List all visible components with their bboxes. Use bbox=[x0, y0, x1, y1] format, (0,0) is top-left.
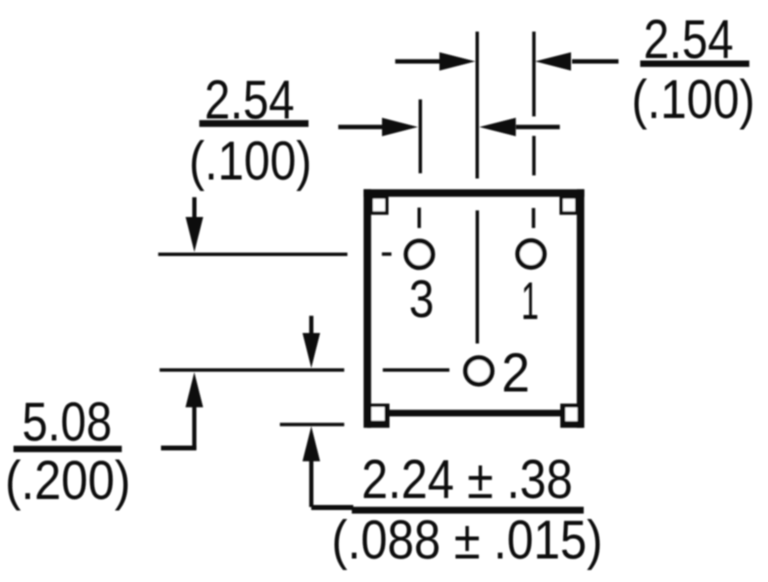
fraction bar bottom center bbox=[352, 507, 584, 514]
package outline bbox=[364, 189, 585, 427]
dimension text (.088 +/- .015) bottom bbox=[332, 508, 603, 570]
dimension arrow second row right bbox=[479, 118, 560, 136]
svg-text:5.08: 5.08 bbox=[22, 391, 112, 453]
extension line pin row left bbox=[158, 252, 391, 256]
arrow down to pin row line bbox=[186, 197, 204, 252]
dimension arrow second row left bbox=[338, 118, 418, 136]
svg-text:3: 3 bbox=[409, 269, 434, 328]
dimension text (.100) top right bbox=[632, 68, 756, 129]
svg-text:2.24 ± .38: 2.24 ± .38 bbox=[362, 448, 573, 510]
dimension text 5.08 bottom left bbox=[22, 391, 112, 453]
dimension text 2.24 +/- .38 bottom bbox=[362, 448, 573, 510]
center line bbox=[476, 32, 480, 344]
svg-text:(.100): (.100) bbox=[189, 130, 312, 191]
pin 1 extension line bbox=[532, 32, 536, 228]
corner mark top-left bbox=[370, 195, 389, 215]
svg-text:1: 1 bbox=[521, 272, 539, 331]
dimension arrow top row left bbox=[395, 52, 475, 70]
arrow down to pin 2 line bbox=[303, 316, 321, 368]
pin 1 bbox=[518, 241, 545, 268]
pin 2 bbox=[465, 358, 492, 385]
arrow up to bottom line with leader to 2.24 bbox=[303, 426, 354, 510]
fraction bar bottom left bbox=[14, 446, 122, 452]
pin 2 label bbox=[502, 343, 530, 404]
corner mark bottom-left bbox=[367, 404, 390, 428]
svg-text:(.200): (.200) bbox=[5, 449, 131, 511]
dimension text 2.54 top right bbox=[644, 8, 734, 70]
fraction bar top left bbox=[199, 120, 308, 127]
dimension text (.200) bottom left bbox=[5, 449, 131, 511]
fraction bar top right bbox=[640, 61, 749, 67]
pin 3 bbox=[406, 241, 433, 268]
svg-text:2.54: 2.54 bbox=[644, 8, 734, 70]
dimension text 2.54 top left bbox=[205, 68, 295, 130]
svg-text:(.100): (.100) bbox=[632, 68, 756, 129]
extension line pin 2 row left bbox=[160, 368, 450, 371]
corner mark bottom-right bbox=[560, 404, 583, 428]
dimension text (.100) top left bbox=[189, 130, 312, 191]
pin 3 label bbox=[409, 269, 434, 328]
svg-text:2: 2 bbox=[502, 343, 530, 404]
dimension arrow top row right bbox=[535, 52, 619, 70]
corner mark top-right bbox=[560, 195, 579, 215]
extension line package bottom bbox=[280, 423, 344, 426]
arrow up to pin 2 line with leader to 5.08 bbox=[161, 372, 203, 450]
svg-text:(.088 ± .015): (.088 ± .015) bbox=[332, 508, 603, 570]
pin 1 label bbox=[521, 272, 539, 331]
pin 3 extension line bbox=[418, 99, 423, 228]
